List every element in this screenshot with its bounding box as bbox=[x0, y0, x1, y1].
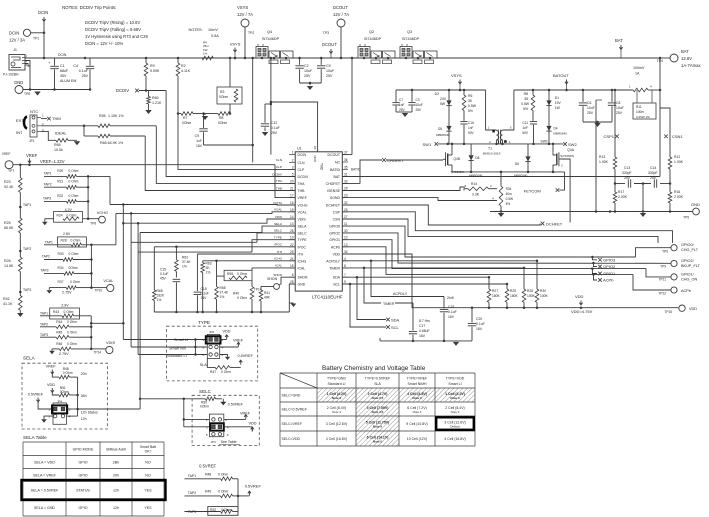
svg-text:GPIO: GPIO bbox=[79, 461, 88, 465]
svg-text:TP9: TP9 bbox=[660, 265, 666, 269]
svg-text:VDD: VDD bbox=[689, 307, 697, 311]
svg-text:26: 26 bbox=[344, 208, 348, 212]
svg-text:TYPE: TYPE bbox=[274, 236, 282, 240]
svg-text:GPIO MODE: GPIO MODE bbox=[73, 447, 94, 451]
svg-text:1.15K 1%: 1.15K 1% bbox=[108, 114, 124, 118]
svg-text:Note 3: Note 3 bbox=[412, 396, 422, 400]
svg-text:Smart LI: Smart LI bbox=[174, 338, 188, 342]
wire DCOUT to IC pin bbox=[351, 58, 353, 155]
wire TYPE long bbox=[138, 251, 252, 253]
wire vdis collector bbox=[90, 316, 92, 349]
svg-text:DCIN = 12V +/- 10%: DCIN = 12V +/- 10% bbox=[85, 41, 123, 46]
wire R24 to TP8 bbox=[83, 218, 99, 220]
svg-text:SDA: SDA bbox=[333, 276, 341, 280]
capacitor C16 1nF bbox=[460, 121, 467, 123]
svg-text:100K: 100K bbox=[527, 294, 536, 298]
svg-text:100mV: 100mV bbox=[633, 66, 645, 70]
svg-text:TP10: TP10 bbox=[95, 289, 103, 293]
svg-text:TAP1: TAP1 bbox=[40, 312, 48, 316]
svg-text:0.1uF: 0.1uF bbox=[448, 310, 457, 314]
svg-text:7: 7 bbox=[344, 273, 346, 277]
svg-text:0.5W: 0.5W bbox=[521, 102, 530, 106]
svg-text:R26: R26 bbox=[4, 259, 11, 263]
svg-text:Note 5: Note 5 bbox=[373, 440, 383, 444]
svg-text:SDA: SDA bbox=[391, 317, 400, 322]
svg-text:Battery Chemistry and Voltage: Battery Chemistry and Voltage Table bbox=[322, 365, 426, 372]
svg-text:VDD: VDD bbox=[249, 422, 257, 426]
svg-text:DCDIV TripV (Rising) = 10.6V: DCDIV TripV (Rising) = 10.6V bbox=[85, 20, 140, 25]
wire THB elbow bbox=[145, 136, 295, 191]
svg-text:1V Hysteresis using R73 and C2: 1V Hysteresis using R73 and C29 bbox=[85, 34, 149, 39]
svg-text:CLN: CLN bbox=[298, 161, 305, 165]
wire SELC long bbox=[131, 241, 257, 243]
wire vchg elbow to IC bbox=[88, 175, 110, 177]
transistor Q4B Si7236DN bbox=[451, 144, 453, 152]
svg-text:ITH: ITH bbox=[298, 253, 304, 257]
svg-text:10.0k: 10.0k bbox=[54, 148, 63, 152]
svg-text:R9: R9 bbox=[150, 64, 155, 68]
svg-text:D2: D2 bbox=[435, 92, 439, 96]
svg-text:23: 23 bbox=[344, 194, 348, 198]
svg-text:27: 27 bbox=[344, 215, 348, 219]
svg-text:2.00K: 2.00K bbox=[618, 195, 628, 199]
svg-text:VCAL: VCAL bbox=[103, 278, 114, 283]
svg-text:DCHFET: DCHFET bbox=[326, 204, 341, 208]
node ACPb label bbox=[594, 274, 598, 280]
svg-text:TMD: TMD bbox=[320, 163, 324, 171]
wire TIMER route bbox=[342, 267, 524, 269]
resistor R23 92.4K bbox=[19, 165, 21, 178]
svg-text:20h: 20h bbox=[113, 474, 119, 478]
resistor R9 9.09K bbox=[145, 58, 147, 63]
svg-text:0 Ohm: 0 Ohm bbox=[64, 310, 74, 314]
svg-text:D8: D8 bbox=[475, 156, 479, 160]
svg-text:25V: 25V bbox=[650, 176, 657, 180]
svg-text:DCIN: DCIN bbox=[298, 153, 307, 157]
svg-text:Note 3: Note 3 bbox=[332, 396, 342, 400]
wire ICAL bbox=[252, 267, 295, 269]
svg-text:MBR0540: MBR0540 bbox=[436, 133, 450, 137]
svg-text:R45: R45 bbox=[56, 331, 62, 335]
svg-text:C2: C2 bbox=[304, 64, 309, 68]
svg-text:Default: Default bbox=[450, 425, 460, 429]
svg-text:C18: C18 bbox=[201, 287, 207, 291]
svg-text:Q4A: Q4A bbox=[567, 148, 574, 152]
wire R37 to TP10 bbox=[91, 287, 106, 289]
svg-text:SCL: SCL bbox=[333, 283, 340, 287]
svg-text:R63: R63 bbox=[206, 262, 212, 266]
svg-text:TP14: TP14 bbox=[254, 288, 262, 292]
svg-text:CSP1: CSP1 bbox=[604, 134, 615, 139]
svg-text:IPOC: IPOC bbox=[274, 243, 282, 247]
wire type row feeds2 bbox=[123, 339, 207, 341]
svg-text:12V / 3A: 12V / 3A bbox=[9, 38, 25, 43]
svg-text:NOTES: DCDIV Trip Points:: NOTES: DCDIV Trip Points: bbox=[62, 5, 116, 10]
ground R24 bbox=[44, 219, 46, 222]
svg-text:5%: 5% bbox=[468, 109, 473, 113]
wire ground bus under input bbox=[23, 89, 90, 91]
svg-text:3.3K: 3.3K bbox=[472, 193, 480, 197]
svg-text:R56: R56 bbox=[99, 114, 106, 118]
svg-text:BAT: BAT bbox=[681, 49, 689, 54]
wire SELA long bbox=[140, 232, 262, 234]
resistor R8b 35 snubber bbox=[532, 90, 534, 95]
wire ACPDLY route bbox=[342, 260, 537, 262]
svg-text:VDIS: VDIS bbox=[106, 340, 115, 345]
svg-text:28: 28 bbox=[290, 280, 294, 284]
svg-text:Note 4: Note 4 bbox=[332, 410, 341, 414]
testpoint TP4 BAT bbox=[670, 54, 678, 62]
svg-text:Smart LI: Smart LI bbox=[448, 382, 461, 386]
capacitor C12 0.1uF bbox=[265, 103, 271, 105]
svg-text:5: 5 bbox=[292, 173, 294, 177]
svg-text:25V: 25V bbox=[82, 74, 89, 78]
resistor R41 49K bbox=[261, 286, 274, 288]
wire vcal collector bbox=[90, 245, 92, 288]
svg-text:YES: YES bbox=[144, 489, 152, 493]
diode D6 MBR0540 bbox=[527, 144, 529, 157]
testpoint TP5 GND bbox=[693, 208, 700, 215]
svg-text:VDIS: VDIS bbox=[275, 215, 282, 219]
svg-text:0.1uF: 0.1uF bbox=[271, 126, 280, 130]
svg-text:35: 35 bbox=[468, 99, 472, 103]
node CHGFET net bbox=[342, 160, 382, 183]
svg-text:0.1uF: 0.1uF bbox=[201, 292, 209, 296]
svg-text:1.00K: 1.00K bbox=[599, 160, 609, 164]
capacitor C1 68uF electrolytic bbox=[54, 58, 56, 66]
svg-text:J1: J1 bbox=[13, 48, 17, 52]
svg-text:37.4K: 37.4K bbox=[220, 291, 229, 295]
wire IC GND pin bbox=[289, 284, 295, 312]
svg-text:R22: R22 bbox=[57, 194, 63, 198]
svg-text:ACPDLY: ACPDLY bbox=[393, 292, 408, 296]
svg-text:MBR0540: MBR0540 bbox=[514, 174, 528, 178]
svg-text:ICAL: ICAL bbox=[275, 264, 282, 268]
svg-text:1%: 1% bbox=[182, 265, 187, 269]
resistor R28 100K pullup bbox=[523, 268, 525, 289]
svg-text:SELC=GND: SELC=GND bbox=[282, 393, 301, 397]
svg-text:3 Cell (7.05V): 3 Cell (7.05V) bbox=[367, 406, 389, 410]
svg-text:12h Status: 12h Status bbox=[81, 411, 98, 415]
svg-text:16V: 16V bbox=[448, 315, 455, 319]
svg-text:GND: GND bbox=[313, 155, 317, 163]
testpoint ACPb bbox=[671, 287, 677, 293]
svg-text:0 Ohm: 0 Ohm bbox=[67, 214, 77, 218]
capacitor C15 0.1uF bbox=[173, 278, 181, 280]
wire SHDN bbox=[279, 277, 296, 285]
resistor R55 0Ohm boxed bbox=[216, 261, 218, 276]
svg-text:TP1: TP1 bbox=[33, 37, 39, 41]
wire to TP CHG_ON bbox=[646, 269, 671, 277]
wire DCHFET route bbox=[342, 205, 540, 225]
svg-text:ICHG: ICHG bbox=[298, 259, 307, 263]
svg-text:THA: THA bbox=[276, 179, 283, 183]
svg-text:35: 35 bbox=[344, 165, 348, 169]
svg-text:R7: R7 bbox=[183, 116, 187, 120]
svg-text:NC: NC bbox=[335, 161, 341, 165]
svg-text:R8: R8 bbox=[524, 92, 528, 96]
svg-text:0.5VREF: 0.5VREF bbox=[245, 484, 262, 489]
svg-text:ACPb: ACPb bbox=[681, 289, 691, 293]
transistor Q4A Si7236DN bbox=[552, 144, 554, 152]
svg-text:VDD: VDD bbox=[47, 383, 55, 387]
svg-text:20: 20 bbox=[290, 179, 294, 183]
svg-text:2.00K: 2.00K bbox=[674, 195, 684, 199]
svg-text:TP14: TP14 bbox=[93, 351, 101, 355]
svg-text:16V: 16V bbox=[476, 327, 483, 331]
wire CSN route bbox=[342, 219, 658, 243]
node 0.5VREF out bbox=[238, 495, 249, 497]
svg-text:FETCOM: FETCOM bbox=[524, 189, 541, 194]
svg-text:Si7446DP: Si7446DP bbox=[364, 37, 382, 41]
svg-text:9.09K: 9.09K bbox=[150, 69, 160, 73]
svg-text:GPIO: GPIO bbox=[79, 506, 88, 510]
svg-text:1 Cell (4.2V): 1 Cell (4.2V) bbox=[445, 392, 465, 396]
svg-text:SELC=VDD: SELC=VDD bbox=[282, 437, 301, 441]
svg-text:26: 26 bbox=[290, 229, 294, 233]
svg-text:C7: C7 bbox=[399, 98, 403, 102]
svg-text:24V: 24V bbox=[440, 97, 447, 101]
wire DCDIV to IC bbox=[166, 91, 295, 177]
svg-text:25V: 25V bbox=[304, 74, 311, 78]
ground JP4 bbox=[44, 416, 53, 419]
svg-text:T1: T1 bbox=[488, 147, 492, 151]
svg-text:6 Cell (14.1V): 6 Cell (14.1V) bbox=[367, 435, 389, 439]
svg-text:20h: 20h bbox=[81, 372, 87, 376]
svg-text:1nF: 1nF bbox=[399, 103, 405, 107]
svg-text:4 Cell (4.8V): 4 Cell (4.8V) bbox=[407, 392, 427, 396]
svg-text:15: 15 bbox=[290, 208, 294, 212]
svg-text:LTC4110EUHF: LTC4110EUHF bbox=[312, 295, 343, 300]
svg-text:VREF: VREF bbox=[26, 153, 38, 158]
svg-text:10uF: 10uF bbox=[304, 69, 313, 73]
svg-text:2hr5: 2hr5 bbox=[447, 296, 454, 300]
svg-text:ACPb: ACPb bbox=[603, 278, 614, 283]
svg-text:R47: R47 bbox=[210, 370, 216, 374]
svg-text:C8: C8 bbox=[616, 101, 620, 105]
svg-text:DCIN: DCIN bbox=[38, 10, 48, 15]
svg-text:TP2: TP2 bbox=[248, 31, 254, 35]
wire CLP elbow bbox=[178, 114, 295, 170]
wire cap mid to ground bbox=[642, 184, 644, 212]
wire GPIO2 route bbox=[342, 233, 671, 263]
svg-text:NO: NO bbox=[145, 474, 151, 478]
svg-text:DCDIV: DCDIV bbox=[116, 88, 129, 93]
svg-text:Q3: Q3 bbox=[407, 30, 412, 34]
svg-text:35V: 35V bbox=[60, 74, 67, 78]
svg-text:DCDIV: DCDIV bbox=[272, 172, 283, 176]
svg-text:5%: 5% bbox=[523, 107, 528, 111]
svg-text:ICAL: ICAL bbox=[298, 266, 306, 270]
svg-text:4: 4 bbox=[344, 257, 346, 261]
svg-text:0 Ohm: 0 Ohm bbox=[67, 320, 77, 324]
ground input bbox=[34, 92, 40, 96]
svg-text:C13: C13 bbox=[624, 166, 630, 170]
svg-text:R30: R30 bbox=[540, 289, 546, 293]
svg-text:TIMER: TIMER bbox=[329, 266, 340, 270]
wire GPIO0 route bbox=[342, 226, 635, 257]
svg-text:6: 6 bbox=[292, 273, 294, 277]
svg-text:TAP2: TAP2 bbox=[42, 255, 50, 259]
svg-text:8.7 Hrs: 8.7 Hrs bbox=[419, 319, 430, 323]
resistor R3 0Ohm in box bbox=[229, 58, 231, 87]
svg-text:3: 3 bbox=[292, 165, 294, 169]
svg-text:0Ohm: 0Ohm bbox=[69, 266, 78, 270]
svg-text:R2: R2 bbox=[181, 64, 186, 68]
svg-text:R65: R65 bbox=[54, 143, 61, 147]
svg-text:17: 17 bbox=[290, 194, 294, 198]
svg-text:2 Cell (8.4V): 2 Cell (8.4V) bbox=[445, 406, 464, 410]
svg-text:C3: C3 bbox=[416, 98, 420, 102]
svg-text:0 Ohm: 0 Ohm bbox=[67, 342, 77, 346]
svg-text:1%: 1% bbox=[206, 271, 211, 275]
svg-text:R55: R55 bbox=[227, 272, 233, 276]
svg-text:D4: D4 bbox=[554, 127, 558, 131]
svg-text:TAP3: TAP3 bbox=[41, 268, 49, 272]
svg-text:SCL: SCL bbox=[391, 325, 400, 330]
ground ladder bottom bbox=[17, 313, 23, 317]
ground R46 bbox=[51, 349, 53, 351]
svg-text:16V: 16V bbox=[196, 144, 203, 148]
svg-text:D1: D1 bbox=[555, 96, 559, 100]
resistor R47 0Ohm bbox=[215, 366, 230, 370]
wire IPOC bbox=[154, 246, 295, 248]
wire VSYS subrail bbox=[396, 89, 486, 91]
svg-text:THB: THB bbox=[298, 189, 306, 193]
wire SDA route bbox=[342, 276, 489, 278]
testpoint GPIO1 CHG_ON bbox=[671, 274, 677, 280]
svg-text:0.1uF: 0.1uF bbox=[476, 322, 485, 326]
wire FET source bus bbox=[452, 171, 565, 173]
svg-text:9 Cell (10.8V): 9 Cell (10.8V) bbox=[406, 422, 427, 426]
svg-text:THB: THB bbox=[276, 186, 282, 190]
svg-text:8: 8 bbox=[344, 264, 346, 268]
svg-text:R33: R33 bbox=[58, 252, 64, 256]
svg-text:50V: 50V bbox=[522, 131, 529, 135]
svg-text:VCHG: VCHG bbox=[298, 204, 308, 208]
resistor R42 41.1K bbox=[19, 296, 23, 311]
diode D2 24V zener bbox=[448, 90, 450, 100]
svg-text:DCIN: DCIN bbox=[58, 53, 67, 57]
svg-text:25V: 25V bbox=[399, 108, 406, 112]
svg-text:VSYS: VSYS bbox=[451, 73, 462, 78]
svg-text:Q4: Q4 bbox=[267, 30, 272, 34]
diode D1 19V zener bbox=[548, 90, 550, 100]
wire R46 to TP9 bbox=[91, 348, 106, 350]
capacitor C11 1nF bbox=[530, 121, 537, 123]
capacitor C18 0.1uF on ITH column bbox=[196, 254, 198, 291]
svg-text:18: 18 bbox=[290, 264, 294, 268]
wire BATOUT subrail bbox=[514, 89, 633, 91]
svg-text:330pF: 330pF bbox=[648, 171, 658, 175]
svg-text:Standard LI: Standard LI bbox=[327, 382, 345, 386]
resistor R30 100K pullup bbox=[536, 261, 538, 289]
wire THA elbow bbox=[156, 126, 295, 184]
svg-text:VDD: VDD bbox=[223, 330, 231, 334]
capacitor C6 10uF bbox=[582, 90, 584, 102]
svg-text:TP12: TP12 bbox=[658, 292, 666, 296]
svg-text:1%: 1% bbox=[220, 295, 225, 299]
svg-text:SELA = 0.5VREF: SELA = 0.5VREF bbox=[31, 489, 59, 493]
svg-text:BH510-1019: BH510-1019 bbox=[483, 152, 501, 156]
wire to TP ACPb bbox=[633, 274, 671, 290]
svg-text:0Ohm: 0Ohm bbox=[200, 405, 209, 409]
node GPIO2 label bbox=[594, 263, 598, 267]
svg-text:0.68uF: 0.68uF bbox=[419, 329, 430, 333]
svg-text:25: 25 bbox=[290, 250, 294, 254]
svg-text:2.75V: 2.75V bbox=[62, 291, 72, 295]
node GPIO1 label bbox=[592, 269, 597, 274]
ground cluster bbox=[289, 302, 293, 304]
wire vdis elbow to IC bbox=[91, 322, 123, 324]
wire VDD pin route bbox=[342, 254, 678, 308]
svg-text:SW2: SW2 bbox=[568, 142, 577, 147]
svg-text:Note 4: Note 4 bbox=[413, 410, 422, 414]
svg-text:68uF: 68uF bbox=[60, 69, 69, 73]
svg-text:0.5W: 0.5W bbox=[506, 197, 513, 201]
svg-text:ACPb: ACPb bbox=[331, 245, 340, 249]
svg-text:R29: R29 bbox=[510, 289, 516, 293]
svg-text:35: 35 bbox=[524, 97, 528, 101]
resistor R17 2.00K bbox=[614, 184, 616, 193]
svg-text:CSN1: CSN1 bbox=[672, 134, 683, 139]
svg-text:BKUP_FLT: BKUP_FLT bbox=[681, 264, 701, 268]
svg-text:TYPE=VDD: TYPE=VDD bbox=[446, 377, 465, 381]
svg-text:BATID: BATID bbox=[351, 168, 361, 172]
svg-text:R3: R3 bbox=[220, 90, 224, 94]
svg-text:C11: C11 bbox=[522, 121, 528, 125]
svg-text:SELA: SELA bbox=[298, 225, 308, 229]
ground C6 C8 bbox=[594, 123, 600, 127]
svg-text:TP7: TP7 bbox=[8, 169, 14, 173]
svg-text:R41: R41 bbox=[264, 291, 270, 295]
resistor R65 10.0k bbox=[56, 139, 68, 143]
wire IC thermal pad pin 38 ground bbox=[271, 102, 318, 152]
svg-text:12h: 12h bbox=[81, 417, 87, 421]
svg-text:R6: R6 bbox=[468, 94, 472, 98]
svg-text:SELA = VREF: SELA = VREF bbox=[33, 474, 56, 478]
svg-text:25V: 25V bbox=[616, 111, 623, 115]
svg-text:4 Cell (16.8V): 4 Cell (16.8V) bbox=[326, 437, 347, 441]
svg-text:ALUM EM: ALUM EM bbox=[60, 79, 76, 83]
svg-text:1: 1 bbox=[292, 151, 294, 155]
svg-text:25V: 25V bbox=[624, 176, 631, 180]
svg-text:R40: R40 bbox=[233, 292, 239, 296]
svg-text:ICHG: ICHG bbox=[274, 257, 282, 261]
capacitor C13 330pF bbox=[627, 179, 629, 187]
svg-text:TAP3: TAP3 bbox=[23, 288, 31, 292]
svg-text:YES: YES bbox=[144, 506, 152, 510]
svg-text:TP5: TP5 bbox=[683, 216, 689, 220]
svg-text:11: 11 bbox=[344, 222, 348, 226]
svg-text:0 Ohm: 0 Ohm bbox=[69, 252, 79, 256]
svg-text:IPOC: IPOC bbox=[298, 245, 307, 249]
wire ISENSE to R14 bbox=[342, 187, 465, 191]
svg-text:10uF: 10uF bbox=[616, 106, 624, 110]
resistor R29 180K pullup bbox=[506, 284, 508, 289]
wire Q4A gate to DCHFET bbox=[562, 159, 571, 222]
svg-text:R46: R46 bbox=[56, 342, 62, 346]
wire JP4 out bbox=[78, 408, 141, 410]
svg-text:22: 22 bbox=[290, 243, 294, 247]
svg-text:R58: R58 bbox=[220, 286, 226, 290]
svg-text:R12: R12 bbox=[674, 155, 680, 159]
svg-text:92.4K: 92.4K bbox=[4, 185, 14, 189]
svg-text:SELC: SELC bbox=[199, 389, 212, 394]
svg-text:182K: 182K bbox=[157, 294, 166, 298]
svg-text:10mV: 10mV bbox=[208, 28, 218, 32]
svg-text:R11: R11 bbox=[636, 105, 642, 109]
